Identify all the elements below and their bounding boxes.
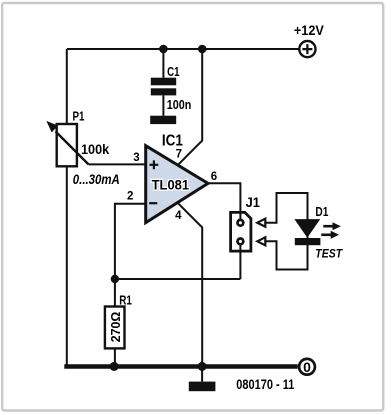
svg-text:6: 6 (211, 171, 217, 183)
svg-text:2: 2 (127, 191, 133, 203)
svg-text:0: 0 (303, 359, 311, 375)
svg-text:100k: 100k (81, 142, 110, 157)
svg-text:IC1: IC1 (162, 132, 183, 149)
svg-text:D1: D1 (315, 205, 328, 219)
svg-text:3: 3 (133, 152, 139, 164)
svg-text:100n: 100n (167, 97, 192, 112)
svg-text:0...30mA: 0...30mA (73, 172, 120, 187)
svg-text:P1: P1 (73, 108, 85, 123)
svg-text:270Ω: 270Ω (108, 312, 123, 343)
svg-text:TL081: TL081 (152, 177, 190, 193)
svg-text:4: 4 (175, 210, 182, 222)
svg-text:TEST: TEST (315, 248, 343, 260)
svg-text:+12V: +12V (294, 23, 325, 38)
svg-text:J1: J1 (246, 194, 260, 210)
svg-text:080170 - 11: 080170 - 11 (236, 377, 294, 392)
svg-text:C1: C1 (167, 64, 179, 79)
svg-text:R1: R1 (119, 294, 132, 308)
svg-text:7: 7 (176, 149, 182, 161)
